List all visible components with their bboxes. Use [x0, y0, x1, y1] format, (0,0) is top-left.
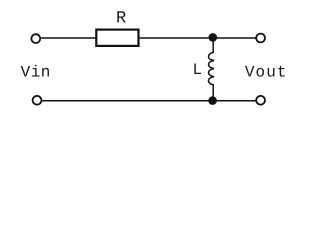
node junction top	[209, 33, 218, 42]
wire top rail right segment	[140, 37, 256, 39]
terminal top-left	[31, 34, 40, 43]
wire bottom rail	[42, 100, 256, 102]
terminal bottom-left	[33, 96, 42, 105]
svg-text:Vin: Vin	[21, 64, 51, 82]
svg-text:L: L	[193, 61, 203, 79]
svg-text:Vout: Vout	[245, 64, 288, 82]
inductor L	[208, 41, 214, 99]
terminal bottom-right	[256, 96, 265, 105]
terminal top-right	[256, 34, 265, 43]
svg-text:R: R	[116, 9, 126, 28]
wire top rail left segment	[41, 37, 95, 39]
node junction bottom	[208, 96, 217, 105]
resistor R	[96, 30, 138, 46]
